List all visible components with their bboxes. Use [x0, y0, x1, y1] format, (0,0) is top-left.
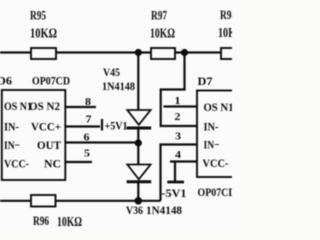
wire top middle segment: [56, 51, 151, 53]
D6 pin 7 stub: [65, 125, 100, 127]
svg-text:8: 8: [85, 96, 92, 108]
svg-text:2: 2: [175, 111, 182, 123]
svg-text:IN-: IN-: [4, 120, 19, 134]
svg-text:10KΩ: 10KΩ: [218, 26, 232, 41]
node D junction dot on bottom wire: [135, 197, 143, 205]
node A junction dot: [135, 49, 142, 56]
D6 pin 5 stub: [65, 161, 92, 163]
svg-text:OP07CD: OP07CD: [198, 185, 233, 199]
D6 pin 8 stub: [65, 106, 96, 108]
resistor R98: [221, 48, 237, 59]
svg-text:+5V1: +5V1: [105, 119, 128, 133]
resistor R96: [31, 195, 56, 207]
svg-text:OS N1: OS N1: [4, 99, 32, 113]
D6 pin 6 OUT wire to node C: [65, 141, 138, 143]
svg-text:D6: D6: [0, 74, 12, 88]
svg-text:5: 5: [84, 148, 91, 160]
diode V45 1N4148: [102, 65, 151, 128]
svg-text:1N4148: 1N4148: [102, 79, 135, 93]
power -5V1 bar: [167, 181, 184, 184]
node B junction dot: [181, 49, 188, 56]
svg-text:VCC+: VCC+: [31, 120, 61, 134]
op-amp U-D6 box: [2, 90, 66, 180]
wire V36 down to bottom wire: [137, 182, 139, 201]
wire top horizontal left segment: [0, 51, 31, 53]
wire feedback from node B to D7 pin 2: [161, 53, 198, 127]
wire bottom horizontal right segment to pin3 leg: [56, 200, 161, 202]
svg-text:10KΩ: 10KΩ: [57, 215, 82, 230]
svg-text:10KΩ: 10KΩ: [150, 27, 175, 42]
svg-text:OS N1: OS N1: [204, 100, 233, 114]
wire bottom horizontal left segment: [0, 200, 31, 202]
svg-text:6: 6: [84, 132, 91, 144]
svg-text:1N4148: 1N4148: [146, 203, 182, 217]
wire D7 pin 4 down to -5V1 bar: [174, 162, 176, 182]
wire V45 to node C: [137, 128, 139, 143]
svg-text:VCC-: VCC-: [4, 157, 29, 171]
svg-text:IN−: IN−: [204, 138, 220, 152]
svg-text:VCC-: VCC-: [203, 156, 229, 170]
svg-text:R96: R96: [33, 213, 49, 228]
D7 pin 1 stub: [164, 105, 198, 107]
resistor R95: [31, 48, 56, 59]
wire D7 pin 3 to bottom wire: [161, 145, 198, 201]
svg-text:7: 7: [86, 114, 93, 126]
svg-text:OS N2: OS N2: [29, 99, 60, 113]
svg-text:IN-: IN-: [204, 120, 219, 134]
D7 pin 4 stub: [170, 160, 198, 162]
svg-text:OUT: OUT: [37, 138, 61, 152]
node C junction dot: [135, 139, 142, 146]
svg-text:10KΩ: 10KΩ: [30, 27, 57, 42]
svg-text:R98: R98: [220, 7, 232, 22]
svg-text:R97: R97: [151, 8, 167, 23]
wire top right segment: [175, 51, 222, 53]
wire node C down to diode V36: [137, 143, 139, 165]
svg-text:1: 1: [175, 95, 181, 107]
svg-text:V45: V45: [103, 65, 120, 79]
resistor R97: [151, 48, 175, 59]
svg-text:V36: V36: [126, 203, 143, 217]
svg-text:NC: NC: [44, 157, 61, 171]
svg-text:3: 3: [175, 131, 182, 143]
svg-text:OP07CD: OP07CD: [32, 74, 70, 88]
power +5V1 tick: [101, 119, 103, 131]
svg-text:R95: R95: [30, 8, 46, 23]
svg-text:4: 4: [175, 149, 182, 161]
diode V36 1N4148: [126, 165, 182, 218]
svg-text:IN−: IN−: [4, 138, 20, 152]
svg-text:D7: D7: [198, 74, 213, 88]
svg-text:-5V1: -5V1: [162, 186, 187, 200]
wire node A down to diode V45: [137, 53, 139, 111]
op-amp U-D7 box: [197, 91, 236, 178]
